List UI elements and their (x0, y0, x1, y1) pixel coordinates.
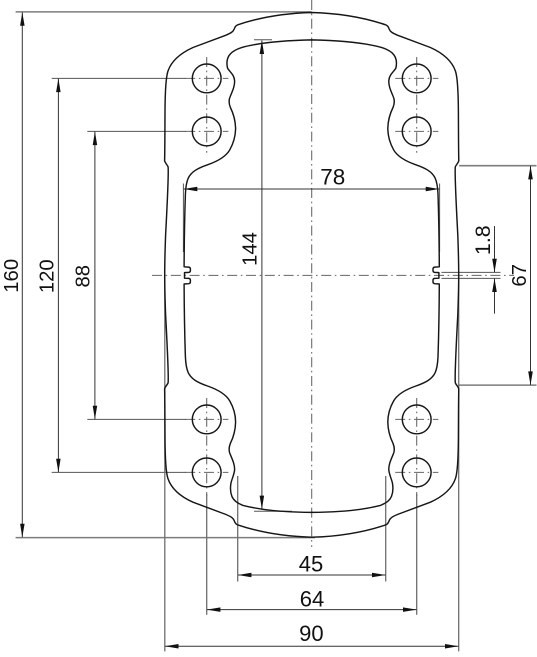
dimension line 78 (184, 188, 440, 190)
outer contour of enclosure profile (165, 13, 459, 538)
extension line top edge (160) (16, 11, 312, 13)
arrow 88 top (93, 132, 98, 146)
extension line hole row 2 (88) (87, 130, 186, 132)
extension line slot upper edge (1.8) (442, 271, 501, 273)
left hole row 1 horizontal centerline (185, 77, 228, 79)
arrow 78 right (426, 187, 440, 191)
arrow 67 top (528, 166, 533, 180)
dimension line 90 (165, 645, 459, 647)
dimension line 1.8 lower leader (494, 279, 496, 314)
arrow 1.8 upper (492, 259, 497, 273)
right hole row 1 horizontal centerline (395, 77, 438, 79)
right hole row 2 horizontal centerline (395, 130, 438, 132)
dimension line 67 (530, 166, 532, 385)
arrow 64 right (403, 607, 417, 612)
arrow 67 bottom (528, 371, 533, 385)
left hole row 4 horizontal centerline (185, 471, 228, 473)
extension line inner wall left (78) (182, 184, 184, 253)
dimension line 1.8 upper leader (494, 226, 496, 272)
extension line inner wall right (78) (439, 184, 441, 253)
arrow 45 left (238, 573, 252, 577)
inner contour of enclosure cavity with screw-boss lobes and centre tabs (184, 40, 439, 513)
top-left boss vertical centerline (206, 57, 208, 153)
svg-text:78: 78 (320, 165, 345, 190)
arrow 45 right (372, 573, 386, 577)
svg-text:1.8: 1.8 (471, 225, 495, 255)
hole right column row 2 (402, 117, 431, 146)
svg-text:88: 88 (73, 265, 95, 288)
left hole row 2 horizontal centerline (185, 130, 228, 132)
arrow 144 top (260, 40, 265, 54)
extension line hole row 4 (120) (52, 471, 186, 473)
extension line inner bottom (144) (254, 510, 292, 512)
arrow 160 top (20, 12, 25, 26)
extension line hole row 3 (88) (87, 418, 186, 420)
right hole row 4 horizontal centerline (395, 471, 438, 473)
hole left column row 3 (192, 405, 221, 434)
extension line left hole column (64) (206, 494, 208, 615)
extension line right hole column (64) (416, 494, 418, 615)
arrow 144 bottom (260, 496, 265, 510)
bottom-right boss vertical centerline (416, 398, 418, 496)
extension line bottom edge (160) (16, 537, 315, 539)
extension line slot lower edge (1.8) (442, 277, 501, 279)
dimension line 64 (207, 609, 417, 611)
dimension line 45 (238, 574, 386, 576)
hole left column row 2 (192, 117, 221, 146)
arrow 120 bottom (56, 459, 61, 473)
extension line side step top (67) (459, 165, 536, 167)
extension line recess right (45) (385, 476, 387, 582)
svg-text:45: 45 (299, 551, 323, 576)
dimension line 160 (21, 12, 23, 537)
dimension line 120 (57, 79, 59, 473)
svg-text:90: 90 (299, 621, 323, 646)
arrow 88 bottom (93, 406, 98, 420)
bottom-left boss vertical centerline (206, 398, 208, 496)
extension line outer left (90) (164, 276, 166, 651)
hole left column row 4 (192, 458, 221, 487)
arrow 64 left (207, 607, 221, 612)
svg-text:64: 64 (300, 586, 324, 611)
arrow 78 left (184, 187, 198, 191)
extension line outer right (90) (458, 276, 460, 651)
right hole row 3 horizontal centerline (395, 418, 438, 420)
horizontal centerline (152, 274, 514, 276)
left hole row 3 horizontal centerline (185, 418, 228, 420)
hole right column row 1 (402, 64, 431, 93)
arrow 120 top (56, 79, 61, 93)
extension line inner top (144) (254, 39, 272, 41)
svg-text:67: 67 (509, 264, 531, 287)
top-right boss vertical centerline (416, 57, 418, 153)
vertical centerline (311, 0, 313, 547)
arrow 90 right (445, 644, 459, 649)
extension line side step bottom (67) (459, 384, 537, 386)
extension line recess left (45) (237, 476, 239, 582)
svg-text:120: 120 (36, 259, 58, 293)
dimension line 88 (94, 132, 96, 420)
hole right column row 3 (402, 405, 431, 434)
arrow 90 left (165, 644, 179, 649)
svg-text:160: 160 (1, 259, 23, 293)
arrow 160 bottom (20, 524, 25, 538)
hole right column row 4 (402, 458, 431, 487)
extension line hole row 1 (120) (52, 77, 186, 79)
svg-text:144: 144 (240, 232, 262, 266)
dimension line 144 (261, 41, 263, 510)
arrow 1.8 lower (492, 278, 497, 292)
hole left column row 1 (192, 64, 221, 93)
